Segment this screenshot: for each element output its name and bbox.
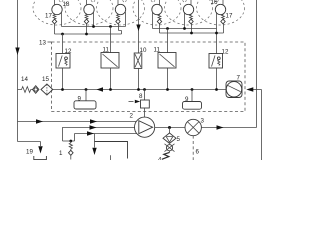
drain valve 4 <box>165 144 175 152</box>
valve 11 left internal diagonal <box>103 54 118 67</box>
wire: left supply drain corner to tank 19 <box>18 142 41 147</box>
valve 11 right box <box>158 53 176 69</box>
wire: nozzle N5 side drop <box>184 12 186 28</box>
wire: mid bus to accumulator 9 left <box>85 90 87 101</box>
dashed enclosure box 13 <box>52 42 246 112</box>
junction dot mid bus x=167.5 <box>166 88 169 91</box>
accumulator 9 right <box>183 102 202 110</box>
nozzle N4 spring <box>158 14 161 19</box>
nozzle N5 check valve <box>189 19 193 24</box>
wire: device 8 to pump 2 <box>144 108 146 117</box>
wire: nozzle N3 check line <box>119 24 122 34</box>
svg-text:7: 7 <box>237 75 241 82</box>
nozzle N1 check valve <box>52 19 56 24</box>
valve 11 right internal diagonal <box>160 54 175 67</box>
dashed drain line 6 <box>192 136 194 160</box>
nozzle N4 spray mark <box>151 0 155 3</box>
label 13 leader tick <box>48 41 52 43</box>
wire: drop bus to valve 12 left <box>62 34 64 54</box>
wire: nozzle N4 side drop <box>152 12 154 28</box>
wire: suction line 3 to pump 2 <box>75 134 137 142</box>
svg-text:17: 17 <box>45 13 52 20</box>
valve 10 box <box>134 53 142 68</box>
sprinkler nozzle N2 <box>84 4 94 14</box>
valve 12 right box <box>209 54 223 69</box>
svg-text:6: 6 <box>196 149 200 156</box>
junction dot mid bus x=138.5 <box>137 88 140 91</box>
junction dot on upper bus at N2 <box>92 25 95 28</box>
check valve after restrictor <box>33 86 39 94</box>
wire: nozzle N2 check line <box>86 24 88 34</box>
nozzle N2 spray mark <box>91 0 95 3</box>
valve 3 <box>185 119 201 135</box>
wire: link between line2/line3 drops <box>63 140 75 142</box>
wire: tap down to filter 5 <box>169 128 171 134</box>
junction dot lower bus at N5 check <box>190 32 193 35</box>
wire: nozzle N6 check line <box>223 24 225 33</box>
svg-text:1: 1 <box>59 150 63 157</box>
nozzle N6 check valve <box>221 19 225 24</box>
wire: left supply line from top edge <box>17 0 19 142</box>
valve 12 right internals <box>212 56 216 67</box>
wire: return into gauge 7 <box>253 89 262 91</box>
svg-text:5: 5 <box>177 136 181 143</box>
sprinkler nozzle N3 <box>115 4 125 14</box>
junction dot mid bus x=62.5 <box>61 88 64 91</box>
tree crown dashed ellipses (clouds) <box>33 0 81 25</box>
nozzle N3 check valve <box>116 19 120 24</box>
svg-text:3: 3 <box>201 118 205 125</box>
nozzle N1 supply stem from top <box>54 0 56 5</box>
wire: center supply line from top edge to valve 10 <box>138 0 140 53</box>
wire: mid bus to device 8 <box>144 90 146 101</box>
svg-text:10: 10 <box>140 47 147 54</box>
pump 2 <box>135 117 155 137</box>
flow arrow down on left supply <box>15 48 19 56</box>
tank suction stub <box>110 155 112 160</box>
wire: right vertical line <box>256 0 258 128</box>
svg-text:17: 17 <box>226 13 233 20</box>
wire: right cloud upper bus <box>153 28 217 30</box>
wire: nozzle N4 check line <box>159 24 161 33</box>
svg-text:18: 18 <box>63 1 70 8</box>
nozzle N5 supply stem from top <box>190 0 192 5</box>
flow arrow left on mid bus <box>97 87 104 91</box>
wire: right cloud lower bus <box>160 32 224 34</box>
wire: left cloud upper bus <box>62 26 126 28</box>
svg-text:11: 11 <box>103 47 110 54</box>
wire: pump 2 output to valve 3 <box>155 127 185 129</box>
junction dot lower bus to valve 12 right <box>215 32 218 35</box>
junction dot mid bus x=144.5 <box>143 88 146 91</box>
nozzle N3 supply stem from top <box>117 0 119 5</box>
wire: nozzle N1 side drop <box>61 12 63 26</box>
wire: nozzle N1 check line <box>54 24 56 34</box>
tank 19 <box>34 156 47 160</box>
sprinkler nozzle N1 <box>52 4 62 14</box>
wire: valve 10 to mid bus <box>138 68 140 89</box>
junction dot on upper bus at valve 11 riser <box>109 25 112 28</box>
svg-text:16: 16 <box>211 0 218 6</box>
junction dot mid bus x=192 <box>191 88 194 91</box>
wire: riser bus to valve 11 right <box>167 29 169 54</box>
valve 12 left box <box>56 54 70 69</box>
relief valve 1 check <box>69 150 74 155</box>
wire: suction line 1 to pump 2 <box>18 121 137 123</box>
device 8 box <box>141 100 150 108</box>
valve 10 internal X <box>135 54 141 67</box>
nozzle N6 spring <box>222 14 225 19</box>
junction dot mid bus x=86 <box>85 88 88 91</box>
nozzle N1 spray mark <box>59 0 63 3</box>
svg-text:14: 14 <box>21 76 28 83</box>
nozzle N2 supply stem from top <box>86 0 88 5</box>
wire: mid bus to accumulator 9 right <box>191 90 193 102</box>
nozzle N4 check valve <box>157 19 161 24</box>
wire: mid horizontal bus <box>53 89 226 91</box>
main tank <box>95 142 128 159</box>
relief valve 1 spring <box>69 141 72 150</box>
wire: nozzle N5 check line <box>191 24 193 33</box>
nozzle N2 check valve <box>84 19 88 24</box>
sprinkler nozzle N6 <box>215 4 225 14</box>
wire: valve 11 right to mid bus <box>167 68 169 90</box>
valve 12 left internals <box>59 56 63 67</box>
small arrow marker into device 8 <box>129 101 134 103</box>
svg-text:9: 9 <box>185 96 189 103</box>
nozzle N5 spray mark <box>183 0 187 3</box>
nozzle N5 spring <box>190 14 193 19</box>
junction dot mid bus x=110.5 <box>109 88 112 91</box>
restrictor 14 <box>18 87 33 93</box>
junction dot lower bus at N2 check <box>85 33 88 36</box>
accumulator 9 left <box>74 101 96 109</box>
wire: valve 12 right to mid bus <box>216 68 218 90</box>
junction dot filter 5 tap <box>168 126 171 129</box>
nozzle N6 spray mark <box>215 0 219 3</box>
nozzle N3 spring <box>117 14 120 19</box>
svg-text:13: 13 <box>39 39 46 46</box>
junction dot mid bus x=216.5 <box>215 88 218 91</box>
wire: valve 12 left to mid bus <box>62 68 64 90</box>
sprinkler nozzle N4 <box>152 4 162 14</box>
sprinkler nozzle N5 <box>183 4 193 14</box>
wire: nozzle N6 side drop / valve 12 right riser <box>216 12 218 53</box>
svg-text:15: 15 <box>42 76 49 83</box>
svg-text:2: 2 <box>130 113 134 120</box>
wire: left cloud lower bus <box>55 33 122 35</box>
svg-text:9: 9 <box>78 96 82 103</box>
valve 11 left box <box>101 53 119 69</box>
svg-text:8: 8 <box>139 93 143 100</box>
wire: suction line 2 to pump 2 <box>63 128 135 142</box>
wire: outer right line down <box>261 90 263 161</box>
junction dot lower bus to valve 12 <box>61 33 64 36</box>
flow arrow down on center supply <box>136 25 140 32</box>
svg-text:19: 19 <box>26 149 33 156</box>
junction dot item 1 tap <box>69 140 72 143</box>
nozzle N3 spray mark <box>123 0 127 3</box>
gauge 7 needle <box>228 85 241 91</box>
gauge 7 body <box>226 81 242 98</box>
nozzle N2 spring <box>85 14 88 19</box>
wire: riser bus to valve 11 left <box>110 27 112 54</box>
wire: nozzle N2 side drop <box>93 12 95 26</box>
wire: nozzle N3 side drop <box>125 12 127 26</box>
filter 15 <box>41 84 53 95</box>
wire: valve 3 output to right riser <box>201 127 256 129</box>
nozzle N4 supply stem from top <box>159 0 161 5</box>
svg-text:12: 12 <box>65 48 72 55</box>
nozzle N6 supply stem from top <box>222 0 224 5</box>
svg-text:12: 12 <box>222 49 229 56</box>
junction dot upper bus at valve 11 right riser <box>166 27 169 30</box>
wire: valve 11 left to mid bus <box>110 68 112 90</box>
filter 5 <box>163 133 176 143</box>
svg-text:4: 4 <box>158 156 162 160</box>
junction dot upper bus at N5 <box>183 27 186 30</box>
nozzle N1 spring <box>53 14 56 19</box>
svg-text:11: 11 <box>154 47 161 54</box>
wire: line 3 branch down into tank <box>94 134 96 148</box>
